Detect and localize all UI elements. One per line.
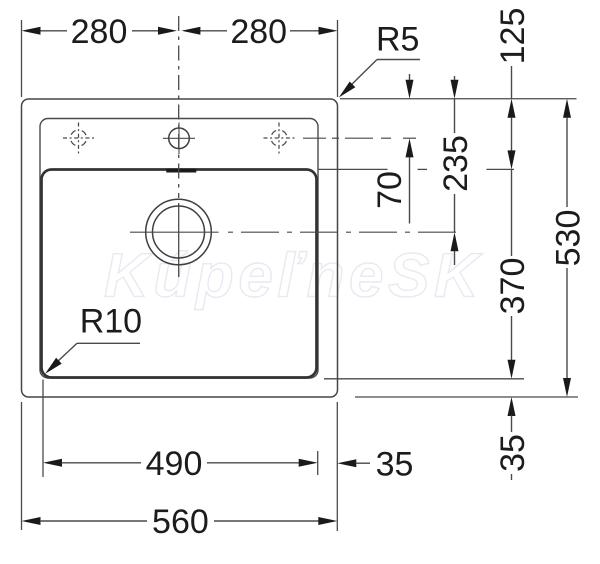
dim 530 lower shaft: [566, 268, 568, 379]
svg-text:235: 235: [437, 135, 475, 192]
dim 125 top shaft: [511, 66, 513, 99]
dim 70 line upper shaft: [409, 74, 411, 81]
dim 235 lower arrow: [451, 232, 459, 251]
dim 530 upper arrow: [563, 99, 571, 118]
R10 leader underline: [77, 342, 140, 344]
top dim extension line left: [21, 20, 23, 97]
outer-right bottom extension line: [336, 402, 338, 531]
dim 370 lower arrow: [508, 360, 516, 379]
dim 560 right shaft: [214, 520, 319, 522]
overflow slot: [166, 169, 196, 173]
dim 560 left arrow: [22, 517, 41, 525]
optional tap hole star right: [264, 123, 295, 154]
outer-bottom extension line right: [355, 396, 578, 398]
dim 70 lower arrow: [406, 138, 414, 157]
svg-text:R10: R10: [80, 303, 142, 341]
center vertical dash-dot line: [178, 16, 180, 198]
R10 leader diagonal: [48, 343, 77, 370]
dim 235 upper arrow: [451, 80, 459, 99]
dim 530 lower arrow: [563, 378, 571, 397]
R5 leader diagonal: [344, 60, 377, 93]
dim 370 upper shaft: [511, 169, 513, 256]
dim 70 upper arrow: [406, 80, 414, 99]
bowl rect 490x370 thick: [42, 170, 317, 378]
svg-text:R5: R5: [376, 21, 419, 59]
faucet crosshair horizontal: [163, 137, 195, 139]
top dim arrow center-left: [158, 27, 177, 35]
dim 235 mid shaft lower: [454, 194, 456, 232]
outer-left bottom extension line: [21, 402, 23, 530]
dim 490 left shaft: [62, 462, 142, 464]
optional tap hole star left: [63, 123, 94, 154]
R5 leader underline: [377, 59, 420, 61]
dim 35 bottom arrow: [337, 459, 356, 467]
outer sink rim rect 560x530: [22, 99, 338, 397]
svg-text:70: 70: [371, 171, 409, 209]
dim 35 right shaft: [511, 416, 513, 433]
svg-text:560: 560: [152, 503, 209, 541]
top dim extension line right: [337, 20, 339, 97]
top dim arrow center-right: [181, 27, 200, 35]
dim 560 left shaft: [40, 520, 147, 522]
svg-text:490: 490: [146, 445, 203, 483]
R5 leader arrow: [339, 82, 356, 98]
dim 560 right arrow: [318, 517, 337, 525]
top dim line segments: [40, 30, 319, 32]
faucet hole circle: [169, 128, 190, 149]
dim 490 right shaft: [207, 462, 299, 464]
R10 leader arrow: [45, 358, 62, 374]
bowl-right bottom extension line: [317, 451, 319, 475]
dim 235 mid shaft upper: [454, 99, 456, 133]
dim 35 right lower stub: [511, 474, 513, 480]
bowl-left bottom extension line: [42, 380, 44, 478]
dim 125 inner shaft: [511, 118, 513, 151]
drain centerline dash-dot to right: [228, 231, 464, 233]
svg-text:35: 35: [376, 445, 414, 483]
drain crosshair horizontal solid: [130, 231, 219, 233]
bowl-bottom extension line: [324, 378, 524, 380]
dim 370 lower shaft: [511, 316, 513, 360]
svg-text:280: 280: [71, 13, 128, 51]
center vertical solid through drain: [178, 203, 180, 277]
dim 530 upper shaft: [566, 118, 568, 208]
bowl-top extension segments: [318, 168, 514, 170]
dim 35 right upper arrow: [508, 397, 516, 416]
tap hole centerline dash-dot segments: [303, 137, 416, 139]
dim 235 lower shaft: [454, 251, 456, 265]
svg-text:530: 530: [549, 210, 587, 267]
dim 490 right arrow: [299, 459, 318, 467]
dim 235 upper shaft: [454, 76, 456, 81]
dim 490 left arrow: [43, 459, 62, 467]
inner deck rect: [40, 119, 318, 379]
dim 35 bottom shaft: [356, 462, 370, 464]
dim 125 upper arrow: [508, 99, 516, 118]
right top-edge extension line: [340, 98, 577, 100]
top dim arrow far left: [22, 27, 41, 35]
drain inner circle: [153, 206, 205, 258]
dim 70 lower shaft: [409, 157, 411, 224]
svg-text:35: 35: [494, 434, 532, 472]
svg-text:280: 280: [230, 13, 287, 51]
svg-text:370: 370: [494, 258, 532, 315]
drain outer circle: [146, 199, 212, 265]
faucet crosshair vertical: [178, 123, 180, 155]
top dim arrow far right: [319, 27, 338, 35]
svg-text:125: 125: [494, 8, 532, 65]
dim 125 lower arrow: [508, 150, 516, 169]
